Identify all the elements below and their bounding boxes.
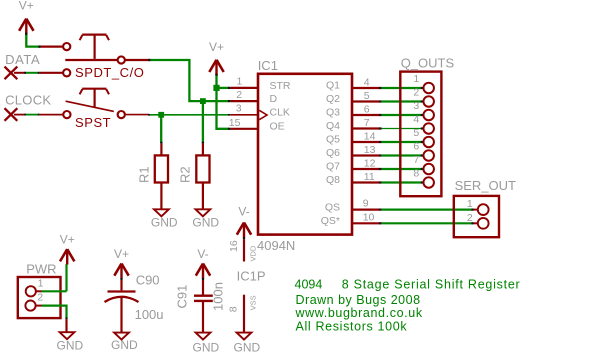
svg-text:V-: V- bbox=[238, 205, 249, 219]
svg-text:All Resistors 100k: All Resistors 100k bbox=[296, 320, 408, 334]
svg-text:Q5: Q5 bbox=[326, 133, 340, 145]
svg-text:2: 2 bbox=[467, 212, 473, 224]
svg-text:13: 13 bbox=[364, 144, 376, 156]
svg-text:40948 Stage Serial Shift Regis: 40948 Stage Serial Shift Register bbox=[295, 278, 521, 292]
svg-text:SER_OUT: SER_OUT bbox=[455, 178, 516, 193]
svg-text:R1: R1 bbox=[136, 166, 151, 183]
svg-text:2: 2 bbox=[413, 86, 419, 98]
svg-text:8: 8 bbox=[413, 167, 419, 179]
svg-text:IC1: IC1 bbox=[258, 58, 278, 73]
svg-text:CLK: CLK bbox=[270, 107, 290, 119]
svg-text:16: 16 bbox=[228, 240, 240, 252]
svg-text:14: 14 bbox=[364, 131, 376, 143]
svg-text:1: 1 bbox=[467, 198, 473, 210]
svg-text:1: 1 bbox=[38, 278, 44, 290]
svg-text:VSS: VSS bbox=[249, 295, 258, 310]
svg-text:D: D bbox=[270, 93, 278, 105]
svg-text:V-: V- bbox=[197, 247, 208, 261]
svg-text:7: 7 bbox=[413, 154, 419, 166]
svg-text:GND: GND bbox=[111, 338, 138, 352]
svg-text:GND: GND bbox=[234, 340, 261, 354]
svg-text:2: 2 bbox=[236, 89, 242, 101]
svg-text:SPST: SPST bbox=[75, 115, 111, 130]
svg-text:11: 11 bbox=[364, 171, 375, 183]
svg-text:GND: GND bbox=[192, 215, 219, 229]
svg-text:V+: V+ bbox=[114, 247, 129, 261]
svg-text:9: 9 bbox=[363, 198, 369, 210]
svg-text:6: 6 bbox=[413, 140, 419, 152]
svg-text:1: 1 bbox=[237, 75, 243, 87]
svg-text:IC1P: IC1P bbox=[237, 269, 266, 284]
svg-text:QS*: QS* bbox=[321, 215, 340, 227]
svg-text:DATA: DATA bbox=[5, 52, 40, 67]
svg-text:5: 5 bbox=[413, 127, 419, 139]
svg-text:2: 2 bbox=[37, 292, 43, 304]
svg-text:Q7: Q7 bbox=[326, 160, 340, 172]
svg-text:100u: 100u bbox=[135, 307, 164, 322]
svg-text:OE: OE bbox=[270, 121, 285, 133]
svg-text:R2: R2 bbox=[178, 166, 193, 183]
svg-text:V+: V+ bbox=[19, 0, 34, 12]
svg-text:C90: C90 bbox=[136, 272, 160, 287]
svg-text:SPDT_C/O: SPDT_C/O bbox=[75, 65, 144, 80]
svg-text:GND: GND bbox=[57, 339, 84, 353]
svg-text:STR: STR bbox=[270, 80, 291, 92]
svg-text:6: 6 bbox=[364, 104, 370, 116]
svg-text:V+: V+ bbox=[60, 233, 75, 247]
svg-text:4: 4 bbox=[413, 113, 419, 125]
svg-text:Q4: Q4 bbox=[326, 120, 340, 132]
svg-text:7: 7 bbox=[364, 117, 370, 129]
svg-text:Q6: Q6 bbox=[326, 147, 340, 159]
svg-text:1: 1 bbox=[413, 73, 419, 85]
svg-text:GND: GND bbox=[151, 215, 178, 229]
svg-text:QS: QS bbox=[325, 202, 340, 214]
svg-text:5: 5 bbox=[364, 90, 370, 102]
svg-text:Q3: Q3 bbox=[326, 106, 340, 118]
svg-text:8: 8 bbox=[228, 306, 240, 312]
svg-text:15: 15 bbox=[229, 117, 241, 129]
svg-text:3: 3 bbox=[236, 103, 242, 115]
svg-text:GND: GND bbox=[193, 340, 220, 354]
svg-text:100n: 100n bbox=[211, 282, 226, 311]
svg-text:PWR: PWR bbox=[26, 262, 56, 277]
svg-text:VDD: VDD bbox=[249, 245, 258, 261]
svg-text:10: 10 bbox=[363, 211, 375, 223]
svg-text:Q1: Q1 bbox=[326, 79, 340, 91]
svg-text:CLOCK: CLOCK bbox=[5, 92, 51, 107]
svg-text:www.bugbrand.co.uk: www.bugbrand.co.uk bbox=[295, 306, 423, 320]
svg-text:4: 4 bbox=[364, 77, 370, 89]
svg-text:Q8: Q8 bbox=[326, 174, 340, 186]
svg-text:3: 3 bbox=[413, 100, 419, 112]
svg-text:C91: C91 bbox=[175, 285, 190, 309]
svg-text:Q_OUTS: Q_OUTS bbox=[401, 56, 455, 71]
svg-text:12: 12 bbox=[364, 158, 376, 170]
svg-text:Q2: Q2 bbox=[326, 93, 340, 105]
svg-text:4094N: 4094N bbox=[257, 238, 295, 253]
svg-text:Drawn by Bugs 2008: Drawn by Bugs 2008 bbox=[296, 293, 421, 307]
svg-text:V+: V+ bbox=[209, 40, 224, 54]
